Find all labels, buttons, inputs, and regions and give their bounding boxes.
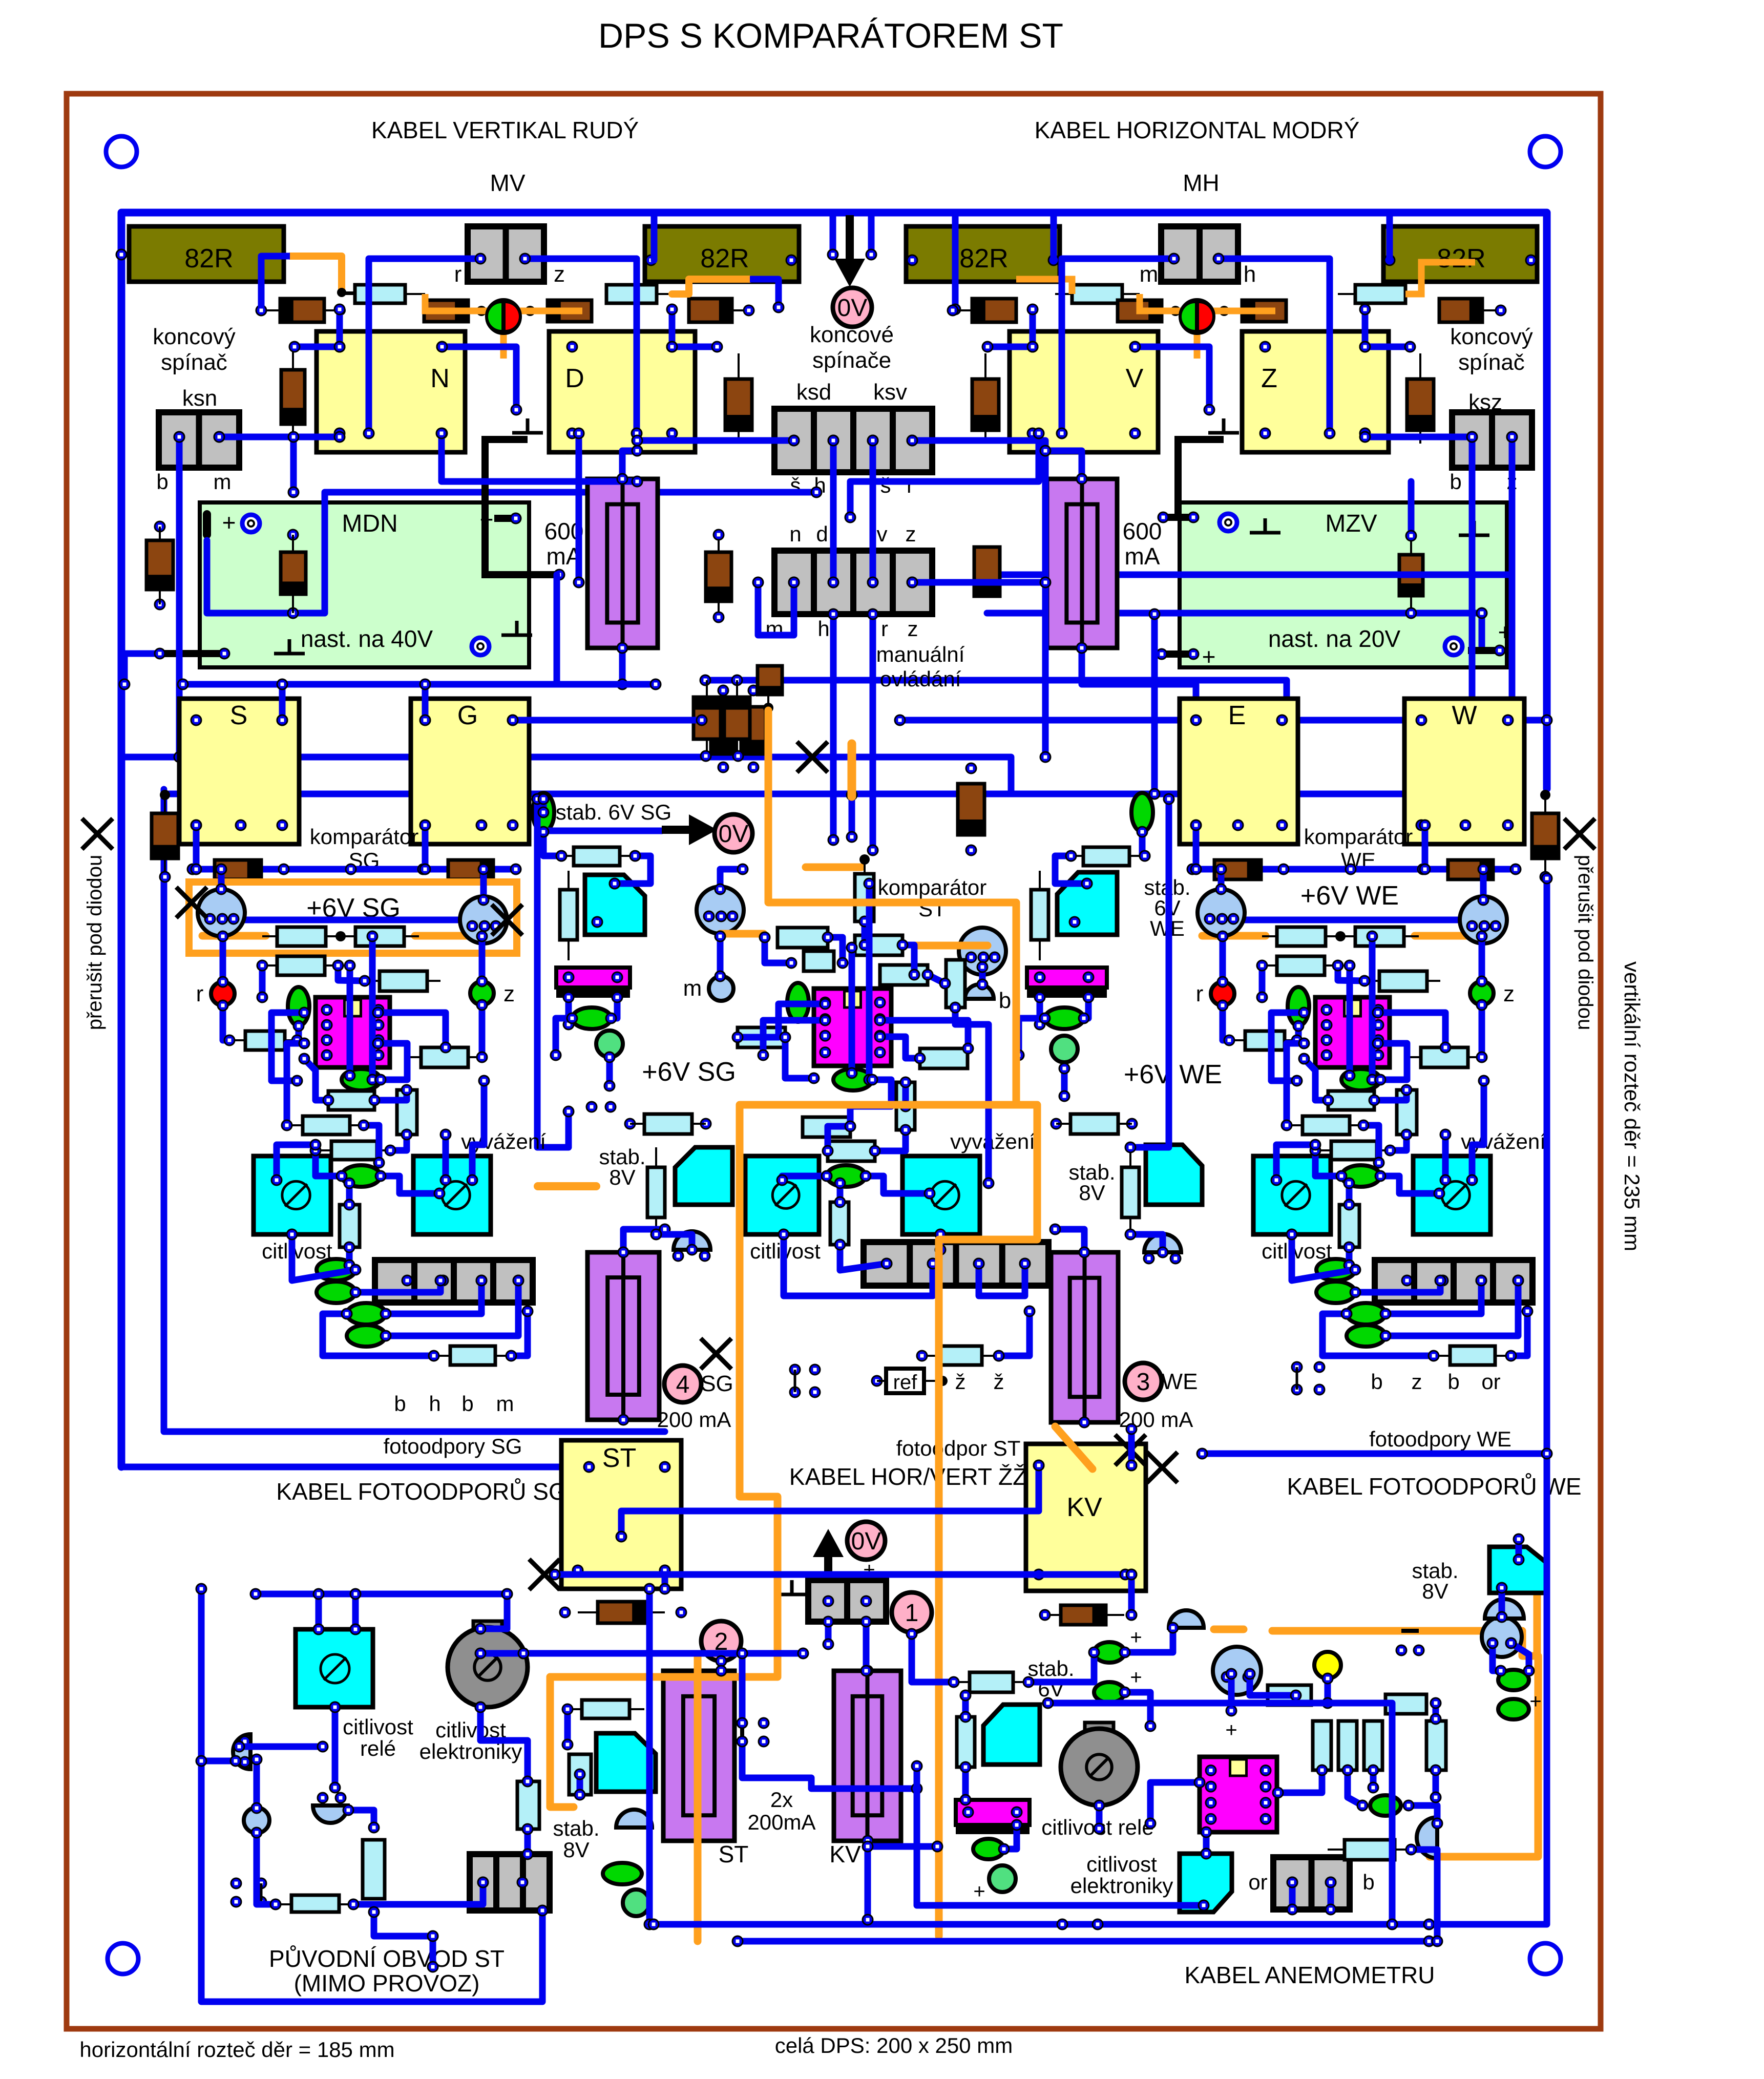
svg-text:4: 4 [676, 1371, 690, 1398]
svg-text:+6V WE: +6V WE [1124, 1060, 1222, 1089]
wire ST c17 [875, 1130, 906, 1151]
svg-text:+6V SG: +6V SG [642, 1057, 736, 1087]
wire orange right riser [1534, 1565, 1541, 1656]
diode cut right [1532, 813, 1559, 858]
relay KV [1026, 1444, 1146, 1591]
node 3 WE [1125, 1363, 1162, 1400]
wire SG c20 [316, 1150, 342, 1176]
cut mark [176, 887, 207, 918]
svg-text:m: m [214, 470, 232, 494]
svg-text:ksn: ksn [182, 386, 217, 411]
svg-text:mA: mA [1125, 543, 1160, 570]
resistor SG r11 [340, 1205, 360, 1247]
svg-text:KABEL FOTOODPORŮ WE: KABEL FOTOODPORŮ WE [1287, 1473, 1581, 1500]
wire ksz b [1509, 437, 1516, 794]
wire SG c16 [304, 1059, 328, 1100]
node 0V top [833, 288, 872, 327]
diode MH d [1439, 299, 1482, 322]
svg-text:r: r [881, 617, 888, 641]
connector SG out [375, 1260, 533, 1303]
LED BR d [1498, 1670, 1529, 1690]
wire SG c11 [297, 1026, 299, 1040]
wire ST v1 [849, 948, 855, 1073]
wire BR 15 [1250, 1674, 1296, 1695]
wire ksn mid [290, 437, 297, 492]
wire BL 11 [257, 1833, 276, 1904]
relay E [1180, 699, 1298, 844]
wire SG c18 [390, 1135, 407, 1150]
svg-text:koncový: koncový [1450, 324, 1532, 349]
svg-text:b: b [394, 1392, 406, 1416]
diode WE b [1448, 860, 1493, 879]
connector BL [470, 1854, 550, 1910]
wire ST c8 [928, 975, 945, 983]
wire SG c22 [346, 1183, 353, 1205]
svg-text:h: h [1244, 262, 1256, 287]
resistor ST r5 [880, 965, 928, 985]
wire stab SG 5 [611, 997, 617, 1018]
wire SG emitter link [221, 917, 484, 923]
wire orange right top [1272, 1631, 1538, 1857]
svg-text:8V: 8V [563, 1838, 589, 1862]
power supply MDN [200, 502, 529, 667]
wire D tr right [672, 344, 717, 350]
connector ksn [159, 412, 239, 468]
arrow to 0V SG [662, 826, 689, 834]
potentiometer citlivost rele BR [1085, 1723, 1114, 1733]
svg-text:0V: 0V [851, 1528, 881, 1555]
resistor SG r7 [328, 1091, 374, 1110]
black wire MZV tl up [1178, 439, 1224, 517]
cut mark KV a [1115, 1435, 1146, 1465]
svg-text:b: b [461, 1392, 473, 1416]
wire WE c10 [1338, 965, 1364, 981]
wire orange MH left [1016, 279, 1072, 294]
LED WE d [1341, 1069, 1380, 1090]
wire WE c27 [1385, 1280, 1481, 1314]
LED WE i [1347, 1325, 1385, 1347]
wire MDN inner loop [207, 492, 816, 613]
diode MH b [1118, 300, 1162, 322]
svg-text:ovládání: ovládání [880, 667, 961, 691]
wire Z ksz [1365, 434, 1472, 440]
potentiometer citlivost elektroniky [473, 1621, 502, 1631]
wire ST c18 [828, 1126, 850, 1151]
wire bus 1336 [183, 681, 656, 688]
wire WE c21 [1380, 1176, 1439, 1193]
wire stub orange down [849, 795, 855, 837]
svg-text:nast. na 40V: nast. na 40V [301, 625, 433, 652]
op-amp WE [1315, 997, 1390, 1067]
LED BR g [989, 1865, 1016, 1892]
node 4 SG [664, 1366, 701, 1402]
LED WE h [1347, 1303, 1385, 1325]
svg-text:přerušit pod diodou: přerušit pod diodou [83, 855, 106, 1030]
svg-text:+: + [973, 1880, 985, 1903]
wire conn to fuse KV [863, 1622, 870, 1671]
wire Z tr right [1365, 344, 1410, 350]
wire BR 27 [1328, 1882, 1334, 1909]
wire BR 19 [1278, 1770, 1322, 1793]
svg-text:KABEL ANEMOMETRU: KABEL ANEMOMETRU [1184, 1962, 1435, 1988]
resistor ST r12 [830, 1202, 849, 1245]
fuse MH 600mA [1047, 479, 1117, 648]
potentiometer ST 1 [745, 1156, 819, 1234]
wire WE c32 [1472, 1081, 1484, 1180]
wire BL 13 [348, 1810, 374, 1828]
wire orange jumper [848, 744, 856, 796]
transistor BR c [1482, 1617, 1522, 1657]
wire WE c12 [1271, 1013, 1304, 1081]
wire BR 7 [1125, 1628, 1173, 1652]
trimmer stab8 SG [675, 1147, 732, 1205]
svg-text:1: 1 [905, 1600, 919, 1627]
svg-text:citlivost: citlivost [1262, 1239, 1332, 1263]
svg-text:N: N [430, 364, 450, 393]
svg-text:KABEL FOTOODPORŮ SG: KABEL FOTOODPORŮ SG [276, 1478, 566, 1505]
wire bus 1122 [987, 572, 1509, 578]
wire BR 31 [1516, 1539, 1522, 1560]
wire orange frame +6V SG [189, 882, 517, 953]
wire BR 29 [917, 1766, 1204, 1905]
LED WE e [1341, 1165, 1380, 1187]
svg-text:KABEL VERTIKAL RUDÝ: KABEL VERTIKAL RUDÝ [371, 117, 639, 143]
wire 82R2 to orange [750, 279, 779, 307]
svg-text:přerušit pod diodou: přerušit pod diodou [1574, 855, 1597, 1030]
wire BL 5 [480, 1594, 507, 1629]
wire stab WE 3 [1130, 799, 1169, 1147]
LED WE g [1316, 1282, 1355, 1303]
wire V tl diode [1030, 309, 1036, 347]
LED BR e [1498, 1699, 1529, 1719]
wire D bottom [576, 433, 582, 582]
wire BL 14 [374, 1912, 433, 1936]
svg-text:r: r [907, 473, 914, 497]
wire N tl left [295, 344, 340, 350]
black wire MDN plus [485, 439, 559, 575]
wire stab WE 9 [1130, 1234, 1163, 1252]
LED ST e [827, 1165, 866, 1187]
trimmer BL [596, 1733, 656, 1792]
resistor WE r9 [1303, 1116, 1350, 1135]
diode SG a [215, 860, 261, 879]
wire WE c17 [1374, 1090, 1406, 1100]
wire bus to W [1509, 794, 1516, 826]
svg-text:ž: ž [994, 1370, 1004, 1394]
diode G b [724, 697, 750, 739]
wire manual n [758, 582, 794, 635]
pads SG aux [790, 1364, 800, 1375]
svg-text:komparátor: komparátor [310, 825, 418, 849]
svg-text:S: S [230, 701, 248, 730]
node 1 [892, 1592, 932, 1632]
wire stab SG 10 [540, 799, 547, 812]
wire BR 22 [1409, 1805, 1437, 1823]
wire ST c15 [850, 1080, 891, 1126]
wire BL 2 [256, 1591, 507, 1598]
diode orange feed [758, 666, 782, 695]
wire fuse KV right [868, 1843, 937, 1850]
wire BR 30 [1499, 1588, 1505, 1617]
wire SG c25 [292, 1234, 355, 1280]
wire fuse KV down [865, 1841, 871, 1920]
diode WE a [1214, 860, 1261, 879]
wire SG c21 [381, 1176, 439, 1193]
potentiometer WE 1 [1253, 1156, 1331, 1234]
wire BR 20 [1348, 1770, 1362, 1805]
LED BR c [1370, 1795, 1401, 1816]
trimmer BR 1 [983, 1705, 1040, 1765]
LED WE green [1470, 981, 1494, 1005]
resistor BR r4 [1313, 1721, 1331, 1770]
wire WE c26 [1355, 1280, 1440, 1292]
resistor SG r9 [303, 1116, 350, 1135]
wire ksz [1469, 437, 1476, 757]
wire orange ST stub left [720, 930, 764, 938]
ref box [886, 1369, 924, 1393]
wire WE c4 [1480, 869, 1487, 900]
wire ST c12 [880, 1020, 968, 1048]
wire ST c6 [862, 921, 868, 945]
wire SG v2 [369, 936, 376, 1080]
wire bus y1406 [900, 717, 1421, 724]
wire diode bus WE [1192, 866, 1516, 873]
svg-text:b: b [1447, 1370, 1459, 1394]
connector ksz [1452, 412, 1532, 468]
black wire MDN bottom [159, 650, 224, 657]
power supply MZV [1180, 502, 1507, 667]
wire BL 18 [564, 1709, 571, 1745]
wire BL 1 [201, 1589, 236, 1761]
wire stab SG 3 [537, 799, 569, 1147]
wire orange short BR [1214, 1626, 1244, 1633]
wire stab SG 4 [565, 997, 572, 1024]
wire BR 12 [1096, 1805, 1103, 1829]
wire orange MV led drop [500, 311, 507, 359]
resistor BR r9 [1345, 1840, 1395, 1860]
svg-text:spínače: spínače [812, 348, 891, 373]
diode MV a [280, 299, 324, 322]
relay D [549, 331, 695, 452]
connector m h [1161, 226, 1238, 282]
resistor pack 82R #1 [129, 226, 284, 282]
transistor BR a [1169, 1610, 1204, 1628]
black stub MZV tl [1163, 514, 1193, 521]
wire fuse MH [1045, 451, 1082, 479]
jumper BL [260, 1883, 263, 1902]
LED BR b [1094, 1682, 1125, 1703]
svg-text:citlivost: citlivost [1086, 1852, 1157, 1876]
diode mid a [706, 552, 731, 601]
test point [472, 638, 489, 655]
IC BR [1200, 1757, 1277, 1832]
wire WE c25 [1292, 1234, 1355, 1280]
resistor SG r8 [397, 1090, 417, 1135]
wire orange MV center [425, 294, 530, 311]
wire BR 6 [1028, 1652, 1094, 1682]
svg-text:82R: 82R [700, 244, 749, 274]
resistor pack 82R #3 [906, 226, 1060, 282]
wire mid branch [739, 1653, 746, 1723]
resistor stab SG a [574, 847, 620, 866]
svg-text:600: 600 [1123, 518, 1162, 544]
fuse MV 600mA [587, 479, 658, 648]
wire ksd h [830, 440, 837, 582]
svg-text:citlivost: citlivost [343, 1715, 413, 1739]
wire ST to KV [621, 1465, 1039, 1537]
diode Z right [1407, 379, 1434, 430]
LED BL b [623, 1889, 649, 1916]
resistor BR r6 [1364, 1721, 1382, 1770]
wire WE c22 [1346, 1183, 1353, 1205]
wire orange MH led drop [1194, 311, 1201, 359]
svg-text:KABEL HORIZONTAL MODRÝ: KABEL HORIZONTAL MODRÝ [1035, 117, 1360, 143]
wire MZV diode top [1408, 481, 1415, 536]
wire arrow pad [825, 1622, 832, 1644]
node 0V bottom [847, 1522, 885, 1560]
svg-text:z: z [1412, 1370, 1422, 1394]
resistor ST r2 [778, 928, 828, 948]
wire BL 10 [254, 1759, 260, 1808]
svg-text:vertikální rozteč děr = 235 mm: vertikální rozteč děr = 235 mm [1620, 961, 1644, 1251]
wire ksd [637, 437, 794, 444]
wire BR 13 [1150, 1782, 1200, 1823]
wire V tr [1135, 347, 1209, 410]
cut mark left [82, 818, 113, 849]
LED SG i [347, 1325, 386, 1347]
test point [1445, 638, 1462, 655]
wire SG c1 [193, 825, 200, 869]
diode MH c [1242, 300, 1286, 322]
diode MV c [548, 300, 592, 322]
svg-text:b: b [1371, 1370, 1382, 1394]
resistor pack 82R #2 [645, 226, 799, 282]
wire BR 25 [1203, 1832, 1210, 1854]
svg-text:fotoodpor ST: fotoodpor ST [896, 1436, 1021, 1460]
svg-text:G: G [457, 701, 478, 730]
svg-text:ksv: ksv [873, 380, 907, 405]
wire WE c2 [1218, 869, 1225, 889]
wire WE c13 [1378, 1013, 1445, 1047]
wire BR 8 [1125, 1692, 1150, 1726]
svg-text:z: z [906, 522, 916, 546]
svg-text:ref: ref [893, 1371, 918, 1394]
relay W [1404, 699, 1524, 844]
resistor WE r12 [1450, 1346, 1495, 1365]
svg-text:+: + [1225, 1719, 1237, 1741]
svg-text:koncový: koncový [153, 324, 235, 349]
wire BR 3 [1202, 1454, 1547, 1924]
relay N [317, 331, 465, 452]
relay Z [1242, 331, 1389, 452]
op-amp ST [814, 989, 891, 1066]
jumper on orange BR [1401, 1629, 1419, 1633]
resistor ST r9 [896, 1082, 915, 1130]
svg-text:+: + [222, 509, 236, 536]
wire BR 11 [1004, 1825, 1017, 1849]
wire ksv r [912, 440, 1045, 757]
svg-text:82R: 82R [184, 244, 233, 274]
wire ST c11 [763, 1020, 825, 1055]
resistor ST r13 [939, 1346, 982, 1365]
svg-text:PŮVODNÍ OBVOD ST: PŮVODNÍ OBVOD ST [269, 1945, 505, 1972]
svg-text:ksd: ksd [796, 380, 831, 405]
resistor stab SG b [560, 890, 577, 940]
diode D right [725, 379, 752, 430]
wire SG c27 [386, 1280, 481, 1314]
wire mid branch b [742, 1741, 917, 1789]
wire WE c29 [1322, 1314, 1434, 1356]
svg-text:z: z [503, 981, 515, 1006]
LED WE c [1288, 987, 1309, 1026]
wire WE c1 [1193, 825, 1200, 869]
diode MH a [972, 299, 1016, 322]
resistor SG r1 [277, 927, 326, 946]
svg-text:ST: ST [602, 1443, 636, 1473]
wire fuse MV [622, 451, 637, 479]
diode MZV inner [1399, 555, 1423, 596]
transistor BL c [313, 1805, 348, 1823]
wire BR 24 [1511, 1643, 1529, 1671]
wire orange MH center [1140, 294, 1224, 311]
pads WE aux [1292, 1362, 1302, 1372]
svg-text:KABEL HOR/VERT ŽŽ: KABEL HOR/VERT ŽŽ [789, 1463, 1027, 1490]
ground [1264, 518, 1267, 533]
test point [1220, 514, 1237, 531]
resistor SG r3 [277, 956, 325, 975]
svg-text:8V: 8V [1422, 1579, 1448, 1603]
svg-text:0V: 0V [837, 295, 868, 322]
wire ST c20 [866, 1176, 930, 1193]
svg-text:WE: WE [1162, 1369, 1198, 1394]
wire WE c8 [1479, 1005, 1485, 1057]
svg-text:fotoodpory WE: fotoodpory WE [1369, 1427, 1511, 1451]
wire BR 22b [1370, 1770, 1377, 1788]
wire bus stub a [830, 213, 836, 255]
wire SG c9 [259, 965, 266, 997]
wire orange main loop [740, 710, 1016, 1677]
wire BR 21 [1433, 1703, 1439, 1719]
transistor BL b [244, 1808, 269, 1833]
potentiometer SG 2 [413, 1156, 491, 1234]
wire N tr [442, 347, 516, 410]
resistor SG r12 [450, 1346, 495, 1365]
wire ST c16 [902, 1082, 909, 1106]
svg-text:MV: MV [490, 170, 526, 196]
svg-text:or: or [1481, 1370, 1500, 1394]
svg-text:komparátor: komparátor [1304, 825, 1413, 849]
resistor BL r5 [582, 1700, 629, 1718]
wire SG c30 [511, 1311, 528, 1356]
svg-text:h: h [817, 617, 829, 641]
svg-text:0V: 0V [719, 821, 749, 848]
resistor WE r7 [1328, 1091, 1374, 1110]
svg-text:komparátor: komparátor [878, 875, 986, 899]
wire SG c10 [338, 965, 365, 981]
wire SG c2 [218, 869, 225, 889]
LED BR yellow [1314, 1652, 1341, 1678]
wire 82R2 up [651, 213, 658, 260]
wire BR 5 [912, 1634, 954, 1682]
diode G a [711, 707, 736, 754]
transistor WE left [1198, 889, 1245, 936]
resistor stab8 WE [1122, 1167, 1139, 1217]
wire BR 2 [738, 1938, 1429, 1945]
wire MDN right down [554, 575, 560, 684]
transistor BL d [616, 1810, 652, 1828]
wire KV top right [1128, 1429, 1135, 1465]
wire orange fuse ST [694, 1654, 702, 1941]
